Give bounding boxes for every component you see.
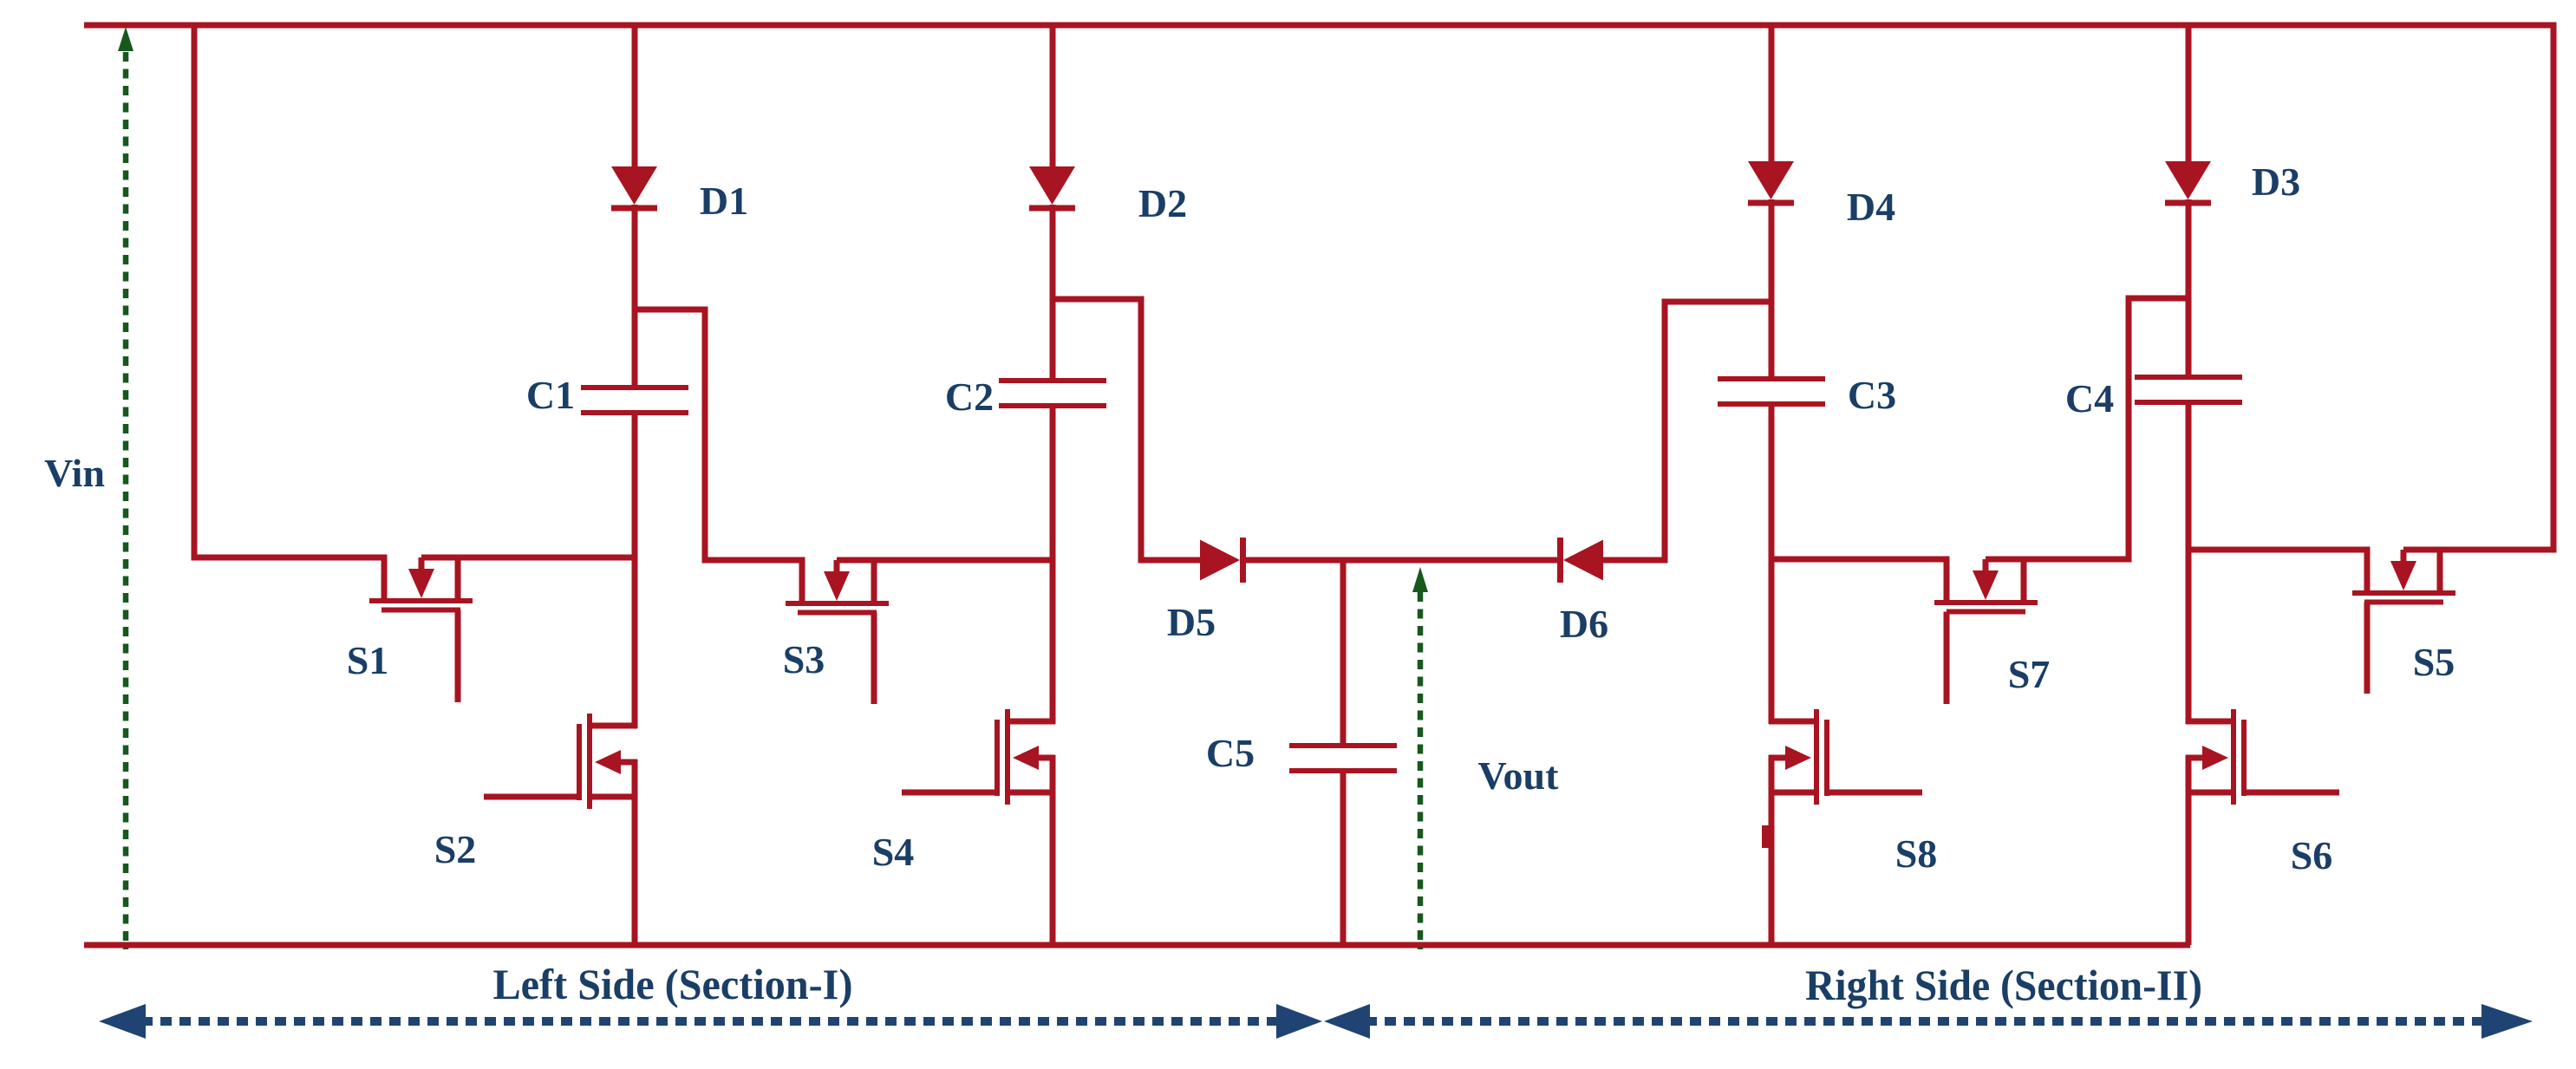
wire S8 source to bottom rail [1769, 755, 1775, 945]
svg-text:S5: S5 [2413, 640, 2455, 684]
wire S6 source to bottom rail [2186, 755, 2192, 945]
wire top rail [84, 23, 2556, 29]
svg-text:C4: C4 [2065, 376, 2114, 420]
wire D6 to C3 branch [1602, 302, 1771, 560]
wire C2 column (D2 cathode to C2 top plate) [1050, 205, 1056, 381]
diode D4 [1748, 161, 1794, 206]
diode D2 [1029, 166, 1075, 212]
diode D3 [2165, 161, 2211, 206]
capacitor C5 [1289, 746, 1397, 771]
svg-text:C3: C3 [1848, 373, 1896, 417]
wire S4 source to bottom rail [1050, 755, 1056, 945]
wire C4 column (C4 bottom plate to S6 drain) [2186, 402, 2192, 724]
diode D5 [1200, 538, 1246, 583]
svg-text:D4: D4 [1847, 185, 1895, 229]
wire C2 column (C2 bottom plate to S4 drain) [1050, 406, 1056, 724]
svg-text:C5: C5 [1206, 731, 1255, 775]
svg-text:S4: S4 [872, 830, 915, 874]
wire S3 row right segment to C2 [837, 557, 1053, 564]
wire S7 row right segment to C4 branch [1986, 298, 2188, 559]
wire S3 row from C1 branch [635, 310, 805, 560]
node Vout measurement arrow (dashed green) [1412, 567, 1428, 949]
right section extent arrow (dashed blue, double-headed) [1324, 1004, 2533, 1039]
svg-text:D6: D6 [1560, 602, 1608, 646]
svg-text:Vin: Vin [44, 451, 105, 495]
wire C1 column (D1 anode from top rail) [632, 25, 638, 168]
capacitor C4 [2135, 377, 2242, 402]
transistor S3 [786, 557, 889, 705]
wire S2 source to bottom rail [632, 759, 638, 945]
wire D5 to D6 via C5 node [1243, 557, 1559, 564]
svg-text:C2: C2 [945, 375, 994, 419]
svg-text:D2: D2 [1138, 181, 1187, 225]
svg-text:S7: S7 [2008, 652, 2051, 696]
svg-text:D1: D1 [700, 179, 748, 223]
transistor S4 [902, 709, 1055, 805]
wire S7 row left segment from C3 [1771, 557, 1949, 563]
transistor S7 [1934, 557, 2038, 705]
wire C1 column (C1 bottom plate to S2 drain) [632, 413, 638, 728]
svg-text:S3: S3 [783, 637, 825, 681]
wire C3 column (D4 cathode to C3 top plate) [1769, 199, 1775, 379]
capacitor C1 [581, 388, 688, 413]
wire C4 column (D3 cathode to C4 top plate) [2186, 199, 2192, 377]
wire D5 branch from D2-C2 node [1053, 299, 1202, 560]
svg-text:C1: C1 [526, 373, 575, 417]
stray tick near S8 [1762, 825, 1769, 848]
capacitor C2 [999, 381, 1106, 406]
wire C5 bottom plate to bottom rail [1340, 771, 1347, 945]
svg-text:S2: S2 [434, 827, 477, 871]
wire S5 row right segment to right rail [2403, 547, 2557, 553]
diode D6 [1557, 538, 1603, 583]
node Vin measurement arrow (dashed green) [118, 27, 134, 949]
svg-text:S8: S8 [1895, 831, 1938, 876]
wire C1 column (D1 cathode to C1 top plate) [632, 205, 638, 388]
svg-text:Left Side (Section-I): Left Side (Section-I) [493, 960, 853, 1008]
svg-text:Right Side (Section-II): Right Side (Section-II) [1805, 961, 2202, 1009]
capacitor C3 [1718, 379, 1825, 404]
transistor S2 [484, 714, 637, 809]
diode D1 [611, 166, 657, 212]
svg-text:D5: D5 [1167, 600, 1216, 644]
wire left input rail [192, 23, 198, 561]
wire S1 row left segment [192, 555, 388, 561]
wire C3 column (D4 anode from top rail) [1769, 25, 1775, 163]
wire S5 row left segment from C4 [2188, 547, 2370, 553]
svg-text:Vout: Vout [1478, 753, 1560, 798]
transistor S1 [369, 555, 473, 703]
svg-text:S6: S6 [2291, 833, 2333, 877]
transistor S5 [2352, 547, 2455, 694]
wire right input rail [2551, 23, 2557, 553]
wire bottom rail (ground return) [84, 942, 2190, 948]
svg-text:S1: S1 [347, 638, 389, 682]
wire C3 column (C3 bottom plate to S8 drain) [1769, 404, 1775, 724]
transistor S8 [1769, 709, 1922, 805]
svg-text:D3: D3 [2252, 160, 2300, 204]
left section extent arrow (dashed blue, double-headed) [99, 1004, 1322, 1039]
wire C2 column (D2 anode from top rail) [1050, 25, 1056, 168]
wire C4 column (D3 anode from top rail) [2186, 25, 2192, 163]
wire C5 node to C5 top plate [1340, 560, 1347, 746]
transistor S6 [2186, 709, 2339, 805]
wire S1 row right segment to C1 [421, 555, 635, 561]
